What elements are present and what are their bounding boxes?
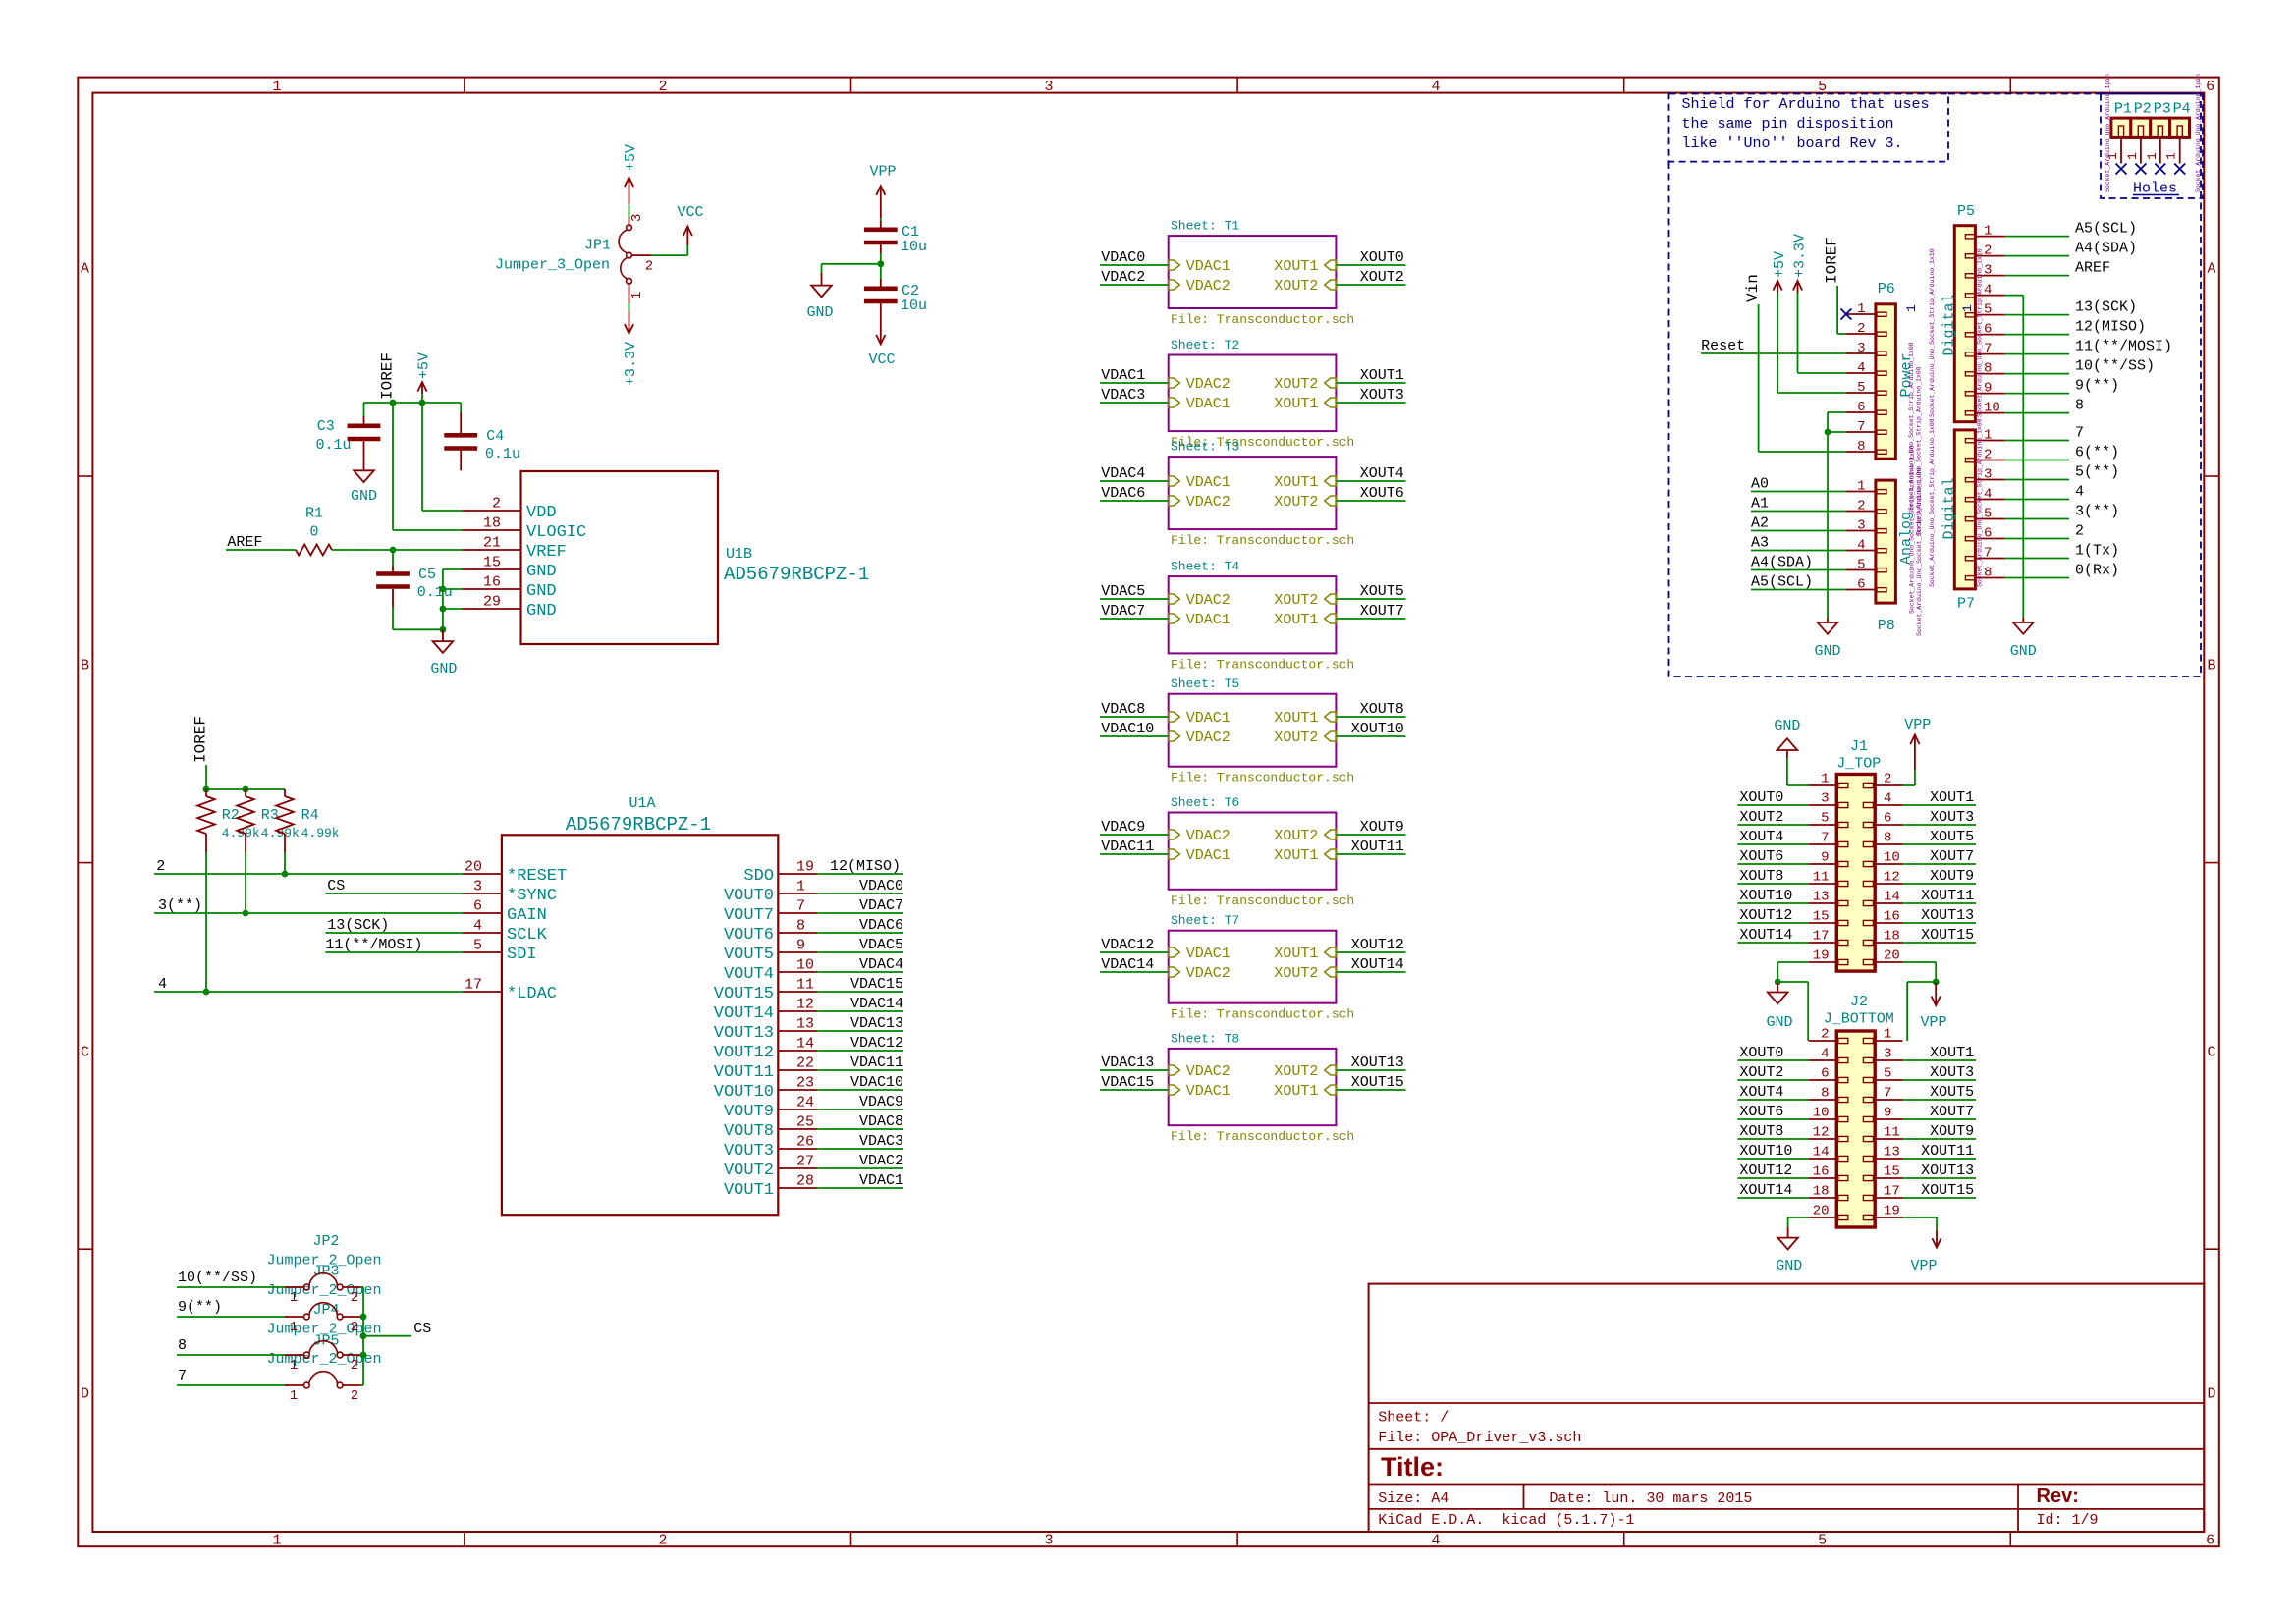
svg-text:like ''Uno'' board Rev 3.: like ''Uno'' board Rev 3. [1682,135,1903,152]
wire VDAC10 to sheet T5 [1100,735,1169,737]
svg-text:XOUT14: XOUT14 [1351,956,1404,973]
svg-text:VDAC5: VDAC5 [859,937,903,953]
capacitor C2 [880,279,882,287]
svg-text:A5(SCL): A5(SCL) [1751,574,1813,591]
svg-text:26: 26 [796,1134,814,1151]
wire VDAC3 to sheet T2 [1100,402,1169,404]
svg-text:5: 5 [1984,302,1992,318]
svg-text:4: 4 [1431,1533,1440,1549]
svg-text:2: 2 [1984,243,1992,259]
power VPP below J2 [1936,1230,1938,1248]
svg-text:9: 9 [796,938,805,954]
power VPP above J1 [1914,735,1916,771]
svg-text:1: 1 [1984,428,1992,444]
J1 pin 10 [1863,861,1873,866]
J1 pin 13 [1838,900,1848,905]
svg-text:20: 20 [1884,948,1900,964]
svg-text:2: 2 [658,1533,667,1549]
svg-text:GND: GND [526,602,557,621]
svg-text:XOUT13: XOUT13 [1921,907,1974,924]
svg-text:6: 6 [1857,400,1865,415]
svg-text:File: Transconductor.sch: File: Transconductor.sch [1171,771,1354,785]
svg-text:10: 10 [1984,401,2000,416]
svg-text:VDD: VDD [526,504,557,522]
wire P5 pin 7 to 11(**/MOSI) [2004,353,2069,355]
svg-text:4: 4 [1857,360,1865,376]
svg-text:8: 8 [1984,566,1992,581]
svg-text:C5: C5 [418,567,436,583]
P8 pin 6 [1877,588,1886,592]
P5 pin 1 [1965,235,1975,239]
svg-text:C3: C3 [317,418,335,435]
svg-text:XOUT2: XOUT2 [1739,809,1783,826]
svg-text:Socket_Arduino_Uno_Arduino_1pi: Socket_Arduino_Uno_Arduino_1pin [2105,74,2111,192]
junction R2 top [203,786,210,793]
svg-text:3(**): 3(**) [158,897,202,914]
svg-text:11: 11 [796,977,814,994]
sheet T5 pin VDAC2 [1169,731,1180,741]
wire P6 pin5 to +5V [1777,392,1846,394]
J1 pin 16 [1863,920,1873,925]
jumper JP1 [629,218,630,225]
U1A pin 13 VOUT13 [778,1030,817,1032]
wire sheet T6 to XOUT9 [1336,834,1405,836]
wire J2 to XOUT11 [1903,1158,1977,1160]
J1 pin 15 [1838,920,1848,925]
JP1 pin 1 stub [629,284,630,303]
svg-text:10(**/SS): 10(**/SS) [178,1270,257,1286]
svg-text:Title:: Title: [1381,1452,1444,1482]
wire P7 pin 3 to 5(**) [2004,479,2069,481]
svg-text:Socket_Arduino_Uno_Socket_Stri: Socket_Arduino_Uno_Socket_Strip_Arduino_… [1916,467,1923,636]
U1A pin 8 VOUT6 [778,932,817,934]
J1 pin 11 [1838,881,1848,886]
svg-text:Sheet: T3: Sheet: T3 [1171,440,1239,455]
ground GND left of C1 [821,273,823,286]
svg-text:14: 14 [1884,890,1900,905]
U1A pin 14 VOUT12 [778,1050,817,1052]
wire JP1 pin1 to +3.3V [629,303,630,311]
svg-text:VPP: VPP [1910,1258,1937,1274]
sheet T1 Transconductor [1169,236,1337,308]
svg-text:P2: P2 [2134,101,2152,118]
svg-text:A5(SCL): A5(SCL) [2075,221,2137,238]
svg-text:VDAC1: VDAC1 [1186,847,1230,864]
wire P7 pin 1 to 7 [2004,440,2069,442]
svg-text:6: 6 [1821,1066,1829,1082]
svg-text:VCC: VCC [677,204,703,221]
svg-text:4: 4 [1857,538,1865,554]
junction CS rail CS [360,1332,367,1339]
svg-text:19: 19 [1884,1204,1900,1219]
U1B pin 2 VDD [463,510,521,512]
wire J2 to XOUT9 [1903,1138,1977,1140]
power +3.3V shield [1797,281,1799,293]
wire VOUT3 to VDAC3 [817,1148,903,1150]
svg-text:5: 5 [1857,380,1865,396]
wire GND rail down [1827,432,1829,618]
svg-text:23: 23 [796,1075,814,1092]
svg-text:VDAC1: VDAC1 [1186,710,1230,727]
svg-text:P1: P1 [2114,101,2132,118]
svg-text:1(Tx): 1(Tx) [2075,543,2119,560]
wire junction to C2 [880,264,882,279]
svg-text:20: 20 [1813,1204,1830,1219]
svg-text:Socket_Arduino_Uno_Socket_Stri: Socket_Arduino_Uno_Socket_Strip_Arduino_… [1977,418,1984,587]
svg-text:7: 7 [1984,546,1992,562]
sheet T8 pin XOUT2 [1325,1065,1337,1075]
J2 pin 3 [1863,1057,1873,1062]
P6 pin 1 [1877,312,1886,316]
svg-text:XOUT1: XOUT1 [1274,847,1318,864]
svg-text:VDAC9: VDAC9 [859,1094,903,1110]
svg-text:18: 18 [1813,1184,1830,1200]
ground above J1 [1786,750,1788,758]
svg-text:R3: R3 [261,807,279,824]
svg-text:16: 16 [1884,909,1900,925]
sheet T7 pin XOUT2 [1325,967,1337,977]
wire VDAC15 to sheet T8 [1100,1089,1169,1091]
J1 pin 2 [1863,783,1873,787]
svg-text:XOUT2: XOUT2 [1360,269,1404,286]
svg-text:10: 10 [1884,850,1900,866]
svg-text:AD5679RBCPZ-1: AD5679RBCPZ-1 [566,814,711,836]
svg-text:A: A [81,261,89,278]
sheet T4 pin XOUT1 [1325,614,1337,623]
svg-text:GND: GND [430,661,457,677]
svg-text:VDAC3: VDAC3 [859,1133,903,1150]
svg-text:A4(SDA): A4(SDA) [1751,555,1813,571]
sheet T6 pin VDAC2 [1169,830,1180,839]
junction VREF-C5 [390,547,397,554]
sheet T8 pin VDAC1 [1169,1085,1180,1095]
svg-text:VDAC1: VDAC1 [1101,367,1145,384]
svg-text:11: 11 [1884,1125,1900,1141]
svg-text:Id: 1/9: Id: 1/9 [2037,1512,2099,1529]
wire J1 to XOUT5 [1903,843,1977,845]
svg-text:VDAC0: VDAC0 [1101,249,1145,266]
U1A pin 26 VOUT3 [778,1148,817,1150]
wire VOUT14 to VDAC14 [817,1010,903,1012]
svg-text:GND: GND [1766,1014,1792,1031]
svg-text:2: 2 [351,1388,358,1404]
svg-text:2: 2 [645,259,653,275]
sheet T1 pin VDAC1 [1169,260,1180,270]
svg-text:XOUT2: XOUT2 [1274,828,1318,844]
svg-text:XOUT4: XOUT4 [1739,1084,1783,1101]
U1A pin 19 SDO [778,873,817,875]
J2 pin 4 [1838,1057,1848,1062]
svg-text:+5V: +5V [623,144,639,171]
J2 pin 15 [1863,1175,1873,1180]
sheet T2 pin VDAC1 [1169,398,1180,407]
wire VOUT7 to VDAC7 [817,912,903,914]
svg-text:11(**/MOSI): 11(**/MOSI) [325,937,422,953]
svg-text:VDAC10: VDAC10 [1101,721,1154,737]
wire R2 to net 4 [205,852,207,992]
junction +5V rail [419,400,426,406]
wire P6 pin4 to +3.3V [1798,372,1846,374]
svg-text:Sheet: T4: Sheet: T4 [1171,560,1239,574]
wire 7 to jumper [177,1384,284,1386]
wire R1 to VREF [332,549,463,551]
svg-text:Sheet: T6: Sheet: T6 [1171,795,1239,810]
U1B pin 15 GND [463,568,521,570]
P5 pin 6 [1965,333,1975,337]
sheet T3 pin XOUT2 [1325,496,1337,506]
svg-text:18: 18 [483,515,501,532]
jumper JP2 contacts [284,1286,303,1288]
svg-text:10(**/SS): 10(**/SS) [2075,358,2155,375]
P5 pin 9 [1965,392,1975,396]
junction P6 GND rail [1825,429,1831,436]
U1A pin 11 VOUT15 [778,991,817,993]
svg-text:0(Rx): 0(Rx) [2075,563,2119,579]
svg-text:CS: CS [327,878,345,894]
svg-text:XOUT7: XOUT7 [1360,603,1404,620]
svg-text:VDAC7: VDAC7 [1101,603,1145,620]
svg-text:7: 7 [796,898,805,915]
svg-text:Sheet: T1: Sheet: T1 [1171,219,1239,234]
svg-text:VDAC7: VDAC7 [859,897,903,914]
wire P5 pin 8 to 10(**/SS) [2004,373,2069,375]
connector P4 pin 1 [2179,137,2181,163]
svg-text:4: 4 [1884,791,1891,807]
svg-text:Sheet: T7: Sheet: T7 [1171,913,1239,928]
J2 pin 10 [1838,1116,1848,1121]
svg-text:5: 5 [1821,811,1829,827]
wire GND junction to J2 pin2 [1777,981,1808,983]
wire XOUT4 to J1 [1737,843,1809,845]
svg-text:VDAC1: VDAC1 [1186,612,1230,628]
svg-text:4: 4 [1984,487,1992,503]
svg-text:13: 13 [796,1016,814,1033]
wire U1B GND pins rail [442,569,444,640]
sheet T6 pin XOUT2 [1325,830,1337,839]
J1 pin 12 [1863,881,1873,886]
svg-text:VDAC6: VDAC6 [859,917,903,934]
svg-text:GND: GND [806,304,833,321]
U1A pin 24 VOUT9 [778,1109,817,1110]
wire sheet T2 to XOUT1 [1336,382,1405,384]
svg-text:11(**/MOSI): 11(**/MOSI) [2075,339,2172,355]
jumper JP4 contacts [284,1354,303,1356]
svg-text:XOUT0: XOUT0 [1360,249,1404,266]
svg-text:1: 1 [1904,304,1919,312]
wire VDAC7 to sheet T4 [1100,618,1169,620]
svg-text:XOUT4: XOUT4 [1739,829,1783,845]
svg-text:J_BOTTOM: J_BOTTOM [1824,1011,1894,1028]
sheet T5 pin XOUT2 [1325,731,1337,741]
svg-text:AD5679RBCPZ-1: AD5679RBCPZ-1 [724,564,869,585]
svg-text:Jumper_2_Open: Jumper_2_Open [266,1282,381,1299]
svg-text:1: 1 [2145,152,2159,160]
J1 pin 6 [1863,822,1873,827]
svg-text:GAIN: GAIN [507,906,547,925]
svg-text:XOUT11: XOUT11 [1921,1143,1974,1160]
wire P5 pin 3 to AREF [2004,275,2069,277]
svg-text:IOREF: IOREF [379,352,397,400]
connector P2 pin 1 [2140,137,2142,163]
wire P5 pin 10 to 8 [2004,412,2069,414]
svg-text:XOUT7: XOUT7 [1930,1104,1974,1120]
wire 10(**/SS) to jumper [177,1286,284,1288]
wire P8 pin 6 A5(SCL) [1751,589,1846,591]
svg-text:Digital: Digital [1941,477,1958,539]
svg-text:GND: GND [2010,643,2037,660]
svg-text:8: 8 [1884,831,1891,846]
wire P6 pin7 to GND rail [1828,431,1846,433]
svg-text:File: Transconductor.sch: File: Transconductor.sch [1171,657,1354,672]
svg-text:GND: GND [1774,718,1800,734]
J1 pin 19 [1838,959,1848,964]
wire P7 pin 7 to 1(Tx) [2004,558,2069,560]
svg-text:12: 12 [1884,870,1900,886]
wire VDAC14 to sheet T7 [1100,971,1169,973]
sheet T6 Transconductor [1169,813,1337,890]
svg-text:10: 10 [1813,1106,1830,1121]
U1A pin 20 *RESET [463,873,502,875]
wire J1 to XOUT3 [1903,824,1977,826]
svg-text:1: 1 [796,879,805,895]
svg-text:XOUT3: XOUT3 [1930,809,1974,826]
wire VPP to C1 [880,218,882,221]
wire sheet T3 to XOUT4 [1336,480,1405,482]
svg-text:VDAC2: VDAC2 [1186,965,1230,982]
svg-text:1: 1 [1857,301,1865,317]
svg-text:VDAC1: VDAC1 [1186,474,1230,491]
svg-text:2: 2 [1984,448,1992,463]
wire P6 pin3 Reset [1701,352,1846,354]
svg-text:VOUT5: VOUT5 [724,946,774,964]
svg-text:VOUT14: VOUT14 [714,1004,774,1023]
U1A pin 27 VOUT2 [778,1167,817,1169]
svg-text:28: 28 [796,1173,814,1190]
svg-text:4: 4 [158,976,167,993]
wire sheet T3 to XOUT6 [1336,500,1405,502]
svg-text:VDAC12: VDAC12 [1101,937,1154,953]
J2 pin 17 [1863,1195,1873,1200]
resistor R4 4.99k [284,789,286,796]
svg-text:GND: GND [351,488,377,505]
U1A pin 28 VOUT1 [778,1187,817,1189]
holes dashed box [2101,94,2203,199]
no-connect X on P1 [2116,164,2127,175]
wire JP5 to CS rail [360,1384,363,1386]
sheet T1 pin VDAC2 [1169,280,1180,290]
wire VOUT10 to VDAC10 [817,1089,903,1091]
jumper JP3 contacts [284,1316,303,1318]
svg-text:1: 1 [1884,1027,1891,1043]
U1B pin 18 VLOGIC [463,529,521,531]
sheet T4 pin VDAC2 [1169,594,1180,604]
P8 pin 3 [1877,529,1886,533]
power VCC below C2 [880,324,882,344]
J2 pin 18 [1838,1195,1848,1200]
svg-text:VOUT1: VOUT1 [724,1181,774,1200]
svg-text:VPP: VPP [1904,717,1931,733]
J2 pin 13 [1863,1156,1873,1161]
svg-text:XOUT9: XOUT9 [1930,1123,1974,1140]
P5 pin 7 [1965,352,1975,356]
svg-text:U1B: U1B [726,546,752,563]
no-connect X on P2 [2135,164,2146,175]
svg-text:1: 1 [272,1533,281,1549]
wire VDAC9 to sheet T6 [1100,834,1169,836]
svg-text:7: 7 [1884,1086,1891,1102]
svg-text:D: D [81,1386,89,1403]
svg-text:VCC: VCC [868,352,895,368]
svg-text:5: 5 [473,938,482,954]
svg-text:1: 1 [1984,224,1992,240]
svg-text:XOUT6: XOUT6 [1739,1104,1783,1120]
svg-text:1: 1 [290,1358,298,1374]
wire P6 pin6 to GND rail [1828,411,1846,413]
svg-text:P4: P4 [2173,101,2191,118]
svg-text:1: 1 [629,292,645,299]
svg-text:8: 8 [2075,398,2084,414]
wire VDAC8 to sheet T5 [1100,716,1169,718]
svg-text:VOUT15: VOUT15 [714,985,774,1003]
svg-text:XOUT0: XOUT0 [1739,789,1783,806]
wire junction to GND [822,263,881,265]
svg-text:8: 8 [1984,361,1992,377]
svg-text:4.99k: 4.99k [261,826,300,840]
svg-text:12(MISO): 12(MISO) [830,858,901,875]
P5 pin 4 [1965,294,1975,298]
J2 pin 1 [1863,1038,1873,1043]
junction GND rail pin29 [440,606,447,613]
svg-text:VDAC1: VDAC1 [1186,258,1230,275]
sheet T5 pin VDAC1 [1169,712,1180,722]
wire 8 to jumper [177,1354,284,1356]
U1A pin 4 SCLK [463,932,502,934]
wire XOUT2 to J1 [1737,824,1809,826]
svg-text:Socket_Arduino_Uno_Socket_Stri: Socket_Arduino_Uno_Socket_Strip_Arduino_… [1909,445,1916,614]
sheet T4 pin VDAC1 [1169,614,1180,623]
sheet T1 pin XOUT1 [1325,260,1337,270]
capacitor C1 [880,221,882,228]
svg-text:0.1u: 0.1u [485,446,520,462]
svg-text:XOUT1: XOUT1 [1930,789,1974,806]
svg-text:XOUT1: XOUT1 [1274,1083,1318,1100]
svg-text:4: 4 [1821,1047,1829,1062]
svg-text:6(**): 6(**) [2075,445,2119,461]
sheet T7 pin VDAC1 [1169,947,1180,957]
svg-text:+3.3V: +3.3V [623,342,639,386]
svg-text:P8: P8 [1878,618,1895,634]
svg-text:XOUT4: XOUT4 [1360,465,1404,482]
svg-text:XOUT9: XOUT9 [1930,868,1974,885]
J2 pin 20 [1838,1215,1848,1219]
svg-text:4.99k: 4.99k [301,826,340,840]
svg-text:VOUT10: VOUT10 [714,1083,774,1102]
wire J1 to XOUT15 [1903,942,1977,944]
svg-text:12: 12 [1813,1125,1830,1141]
svg-text:IOREF: IOREF [1824,237,1841,284]
wire VDAC11 to sheet T6 [1100,853,1169,855]
svg-text:3: 3 [1884,1047,1891,1062]
wire sheet T5 to XOUT8 [1336,716,1405,718]
svg-text:8: 8 [796,918,805,935]
svg-text:File: Transconductor.sch: File: Transconductor.sch [1171,1129,1354,1144]
svg-text:*SYNC: *SYNC [507,887,557,905]
wire P5 pin 6 to 12(MISO) [2004,334,2069,336]
svg-text:2: 2 [658,79,667,95]
svg-text:U1A: U1A [629,795,655,812]
svg-text:A: A [2207,261,2215,278]
P8 pin 1 [1877,490,1886,494]
